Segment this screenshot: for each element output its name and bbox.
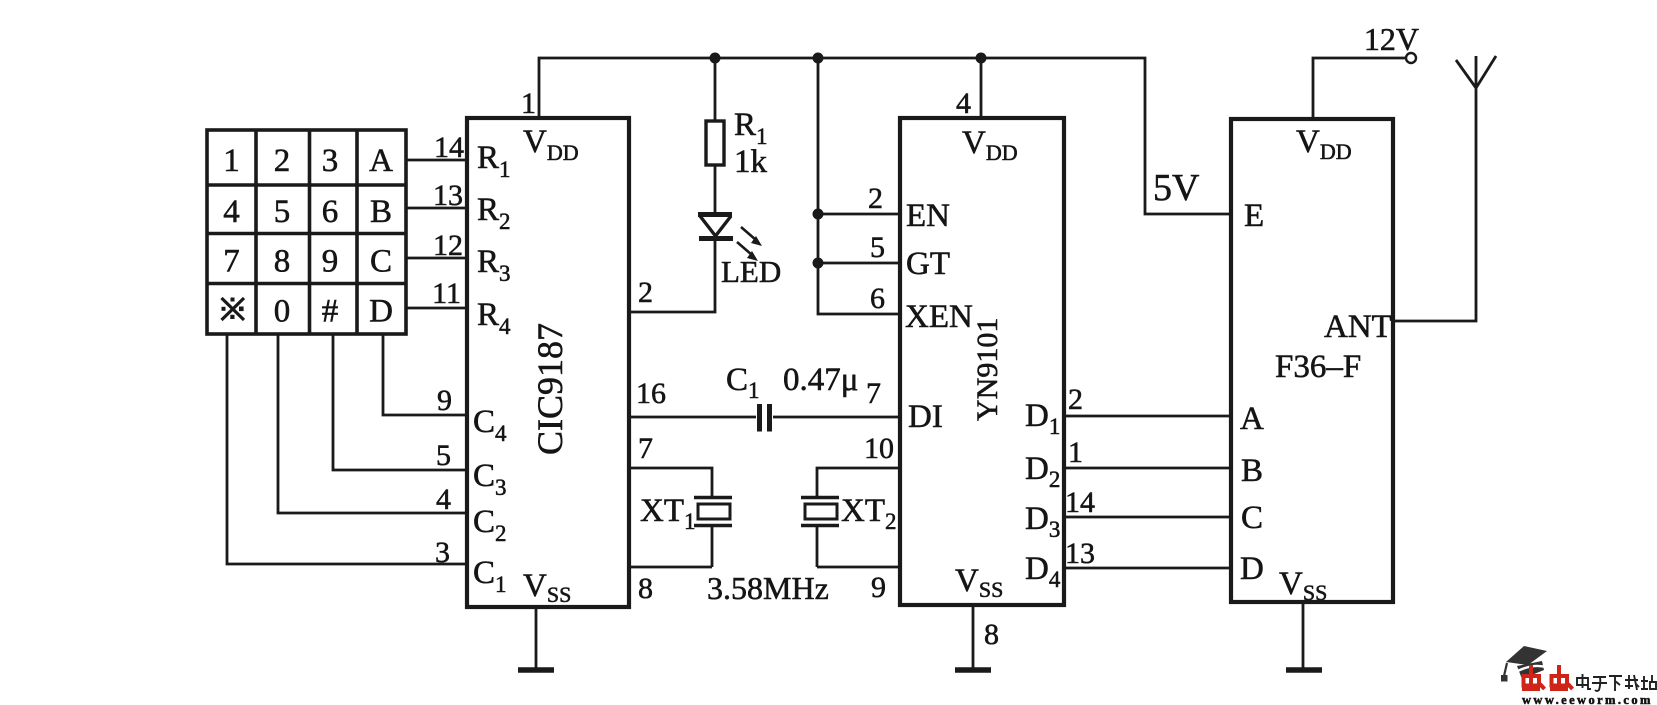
svg-text:C1: C1 bbox=[473, 555, 507, 597]
svg-text:3.58MHz: 3.58MHz bbox=[707, 570, 829, 606]
svg-text:14: 14 bbox=[1065, 486, 1095, 519]
svg-text:R1: R1 bbox=[477, 140, 511, 182]
svg-text:12: 12 bbox=[433, 229, 463, 262]
svg-text:E: E bbox=[1244, 198, 1264, 234]
svg-text:D3: D3 bbox=[1025, 501, 1060, 542]
svg-text:11: 11 bbox=[432, 277, 461, 310]
svg-text:D2: D2 bbox=[1025, 451, 1060, 492]
svg-text:GT: GT bbox=[906, 246, 950, 282]
svg-text:C2: C2 bbox=[473, 504, 507, 546]
svg-text:2: 2 bbox=[1068, 383, 1083, 416]
svg-text:D: D bbox=[1240, 551, 1264, 587]
svg-text:LED: LED bbox=[721, 254, 781, 289]
svg-text:VSS: VSS bbox=[1279, 566, 1327, 605]
svg-text:13: 13 bbox=[433, 179, 463, 212]
svg-text:5: 5 bbox=[274, 194, 291, 230]
svg-text:B: B bbox=[1241, 453, 1263, 489]
svg-text:5: 5 bbox=[870, 231, 885, 264]
svg-text:8: 8 bbox=[638, 572, 653, 605]
svg-text:C: C bbox=[1241, 500, 1263, 536]
svg-text:0.47μ: 0.47μ bbox=[783, 362, 858, 398]
svg-text:2: 2 bbox=[868, 182, 883, 215]
svg-text:8: 8 bbox=[984, 618, 999, 651]
svg-text:A: A bbox=[1240, 401, 1264, 437]
svg-text:B: B bbox=[370, 194, 392, 230]
svg-text:7: 7 bbox=[638, 432, 653, 465]
svg-text:XT1: XT1 bbox=[640, 493, 696, 534]
svg-text:6: 6 bbox=[870, 282, 885, 315]
svg-text:9: 9 bbox=[322, 244, 339, 280]
svg-text:2: 2 bbox=[274, 143, 291, 179]
svg-text:R4: R4 bbox=[477, 297, 511, 339]
svg-text:10: 10 bbox=[864, 432, 894, 465]
svg-text:F36–F: F36–F bbox=[1275, 349, 1361, 385]
svg-text:6: 6 bbox=[322, 194, 339, 230]
svg-text:D1: D1 bbox=[1025, 398, 1060, 439]
svg-text:VSS: VSS bbox=[955, 563, 1003, 602]
svg-text:D: D bbox=[369, 294, 393, 330]
svg-text:C: C bbox=[370, 244, 392, 280]
svg-text:D4: D4 bbox=[1025, 551, 1061, 592]
svg-text:13: 13 bbox=[1065, 537, 1095, 570]
svg-text:XT2: XT2 bbox=[841, 493, 897, 534]
svg-text:16: 16 bbox=[636, 377, 666, 410]
svg-text:VDD: VDD bbox=[523, 124, 579, 165]
svg-text:VDD: VDD bbox=[1296, 124, 1352, 164]
svg-text:14: 14 bbox=[434, 131, 464, 164]
svg-text:7: 7 bbox=[223, 244, 240, 280]
svg-text:R2: R2 bbox=[477, 192, 511, 234]
svg-text:VSS: VSS bbox=[523, 568, 571, 607]
svg-text:4: 4 bbox=[223, 194, 240, 230]
svg-text:A: A bbox=[369, 143, 393, 179]
svg-text:5V: 5V bbox=[1153, 167, 1200, 209]
svg-text:R1: R1 bbox=[734, 107, 768, 149]
svg-text:XEN: XEN bbox=[905, 299, 973, 335]
svg-text:8: 8 bbox=[274, 244, 291, 280]
svg-text:2: 2 bbox=[638, 276, 653, 309]
svg-text:C1: C1 bbox=[726, 362, 760, 403]
svg-text:ANT: ANT bbox=[1324, 309, 1392, 345]
svg-text:C3: C3 bbox=[473, 458, 507, 500]
svg-text:DI: DI bbox=[908, 399, 943, 435]
svg-text:1: 1 bbox=[1068, 436, 1083, 469]
svg-text:3: 3 bbox=[435, 536, 450, 569]
svg-text:12V: 12V bbox=[1364, 21, 1419, 57]
svg-text:www.eeworm.com: www.eeworm.com bbox=[1522, 693, 1653, 705]
svg-text:YN9101: YN9101 bbox=[971, 318, 1004, 421]
svg-text:#: # bbox=[322, 294, 339, 330]
svg-text:9: 9 bbox=[437, 384, 452, 417]
svg-text:CIC9187: CIC9187 bbox=[530, 323, 570, 455]
svg-text:C4: C4 bbox=[473, 404, 507, 446]
svg-text:EN: EN bbox=[906, 198, 950, 234]
svg-text:1k: 1k bbox=[734, 144, 768, 180]
svg-text:9: 9 bbox=[871, 571, 886, 604]
svg-text:VDD: VDD bbox=[962, 125, 1018, 165]
svg-text:4: 4 bbox=[436, 483, 451, 516]
svg-text:4: 4 bbox=[956, 87, 971, 120]
svg-text:1: 1 bbox=[223, 143, 240, 179]
svg-text:5: 5 bbox=[436, 439, 451, 472]
svg-text:1: 1 bbox=[521, 87, 536, 120]
svg-text:R3: R3 bbox=[477, 244, 511, 286]
svg-text:0: 0 bbox=[274, 294, 291, 330]
svg-text:3: 3 bbox=[322, 143, 339, 179]
svg-text:7: 7 bbox=[866, 377, 881, 410]
